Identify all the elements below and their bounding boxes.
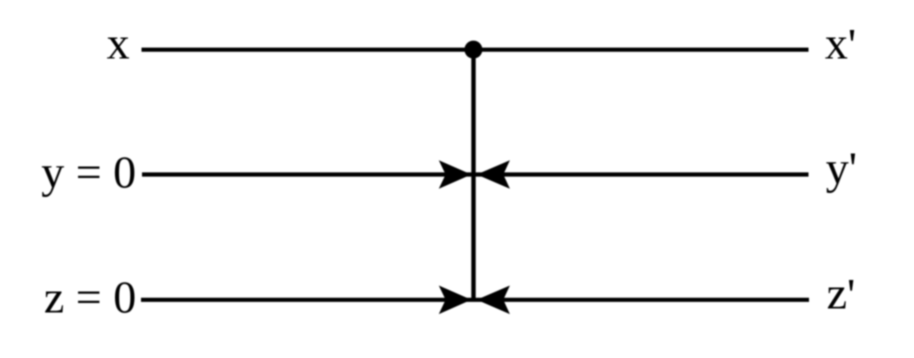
svg-text:y': y' (826, 143, 857, 194)
svg-text:z = 0: z = 0 (44, 272, 136, 323)
svg-text:z': z' (827, 268, 856, 321)
svg-text:y = 0: y = 0 (41, 146, 136, 197)
svg-text:x': x' (825, 17, 856, 70)
svg-text:x: x (107, 18, 130, 69)
